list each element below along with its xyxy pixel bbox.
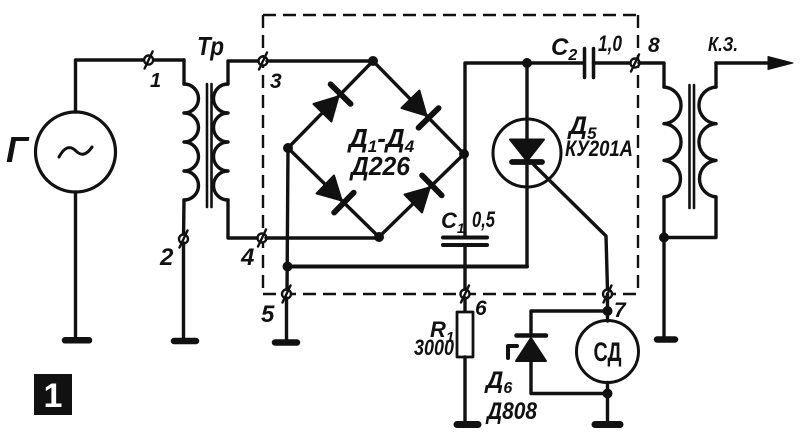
svg-text:6: 6: [475, 297, 487, 320]
node bridge top: [368, 56, 378, 66]
node bridge bottom: [374, 232, 384, 242]
svg-text:СД: СД: [594, 337, 622, 367]
wire bridge right vertex up and to C2: [465, 63, 584, 154]
wire transformer bottom to ground: [662, 238, 665, 337]
svg-text:С2: С2: [551, 34, 577, 64]
wire junction to zener top: [531, 311, 608, 335]
terminal 3: [259, 53, 268, 70]
svg-text:К.З.: К.З.: [708, 34, 738, 56]
terminal 8: [631, 55, 640, 72]
svg-text:0,5: 0,5: [472, 207, 496, 232]
node bridge left: [283, 143, 293, 153]
svg-text:Д808: Д808: [485, 398, 537, 425]
wire bridge left vertex down to terminal 5: [287, 148, 288, 294]
wire terminal 7 to lamp SD: [606, 294, 609, 321]
transformer Tr primary winding: [184, 60, 199, 239]
transformer Tr core: [207, 84, 212, 207]
wire R1 to ground: [463, 357, 466, 421]
transformer Tr secondary winding: [214, 61, 264, 238]
ground (output transformer): [657, 336, 675, 343]
terminal 2: [179, 231, 188, 248]
svg-text:4: 4: [240, 244, 254, 271]
svg-text:КУ201А: КУ201А: [565, 136, 633, 161]
svg-text:С1: С1: [441, 208, 465, 236]
svg-text:Д6: Д6: [484, 367, 512, 397]
wire cathode bus (left vertex to thyristor cathode): [288, 265, 528, 269]
node junction below lamp: [603, 389, 613, 399]
svg-text:3000: 3000: [414, 335, 455, 360]
output transformer primary winding: [664, 87, 681, 238]
terminal 6: [461, 286, 470, 303]
diode D2 (top-right arm): [402, 91, 439, 128]
resistor R1: [457, 298, 473, 357]
wire C1 bottom to terminal 6: [463, 245, 466, 298]
wire terminal 3 to bridge top: [267, 59, 373, 62]
capacitor C2: [585, 49, 594, 78]
wire generator top to terminal 1 to transformer: [76, 60, 185, 112]
wire terminal 5 to ground: [285, 298, 288, 339]
figure number 1: [34, 374, 72, 415]
ground (generator): [65, 337, 89, 344]
svg-text:1,0: 1,0: [598, 31, 623, 56]
lamp SD: [577, 321, 639, 383]
wire bridge right down to C1: [463, 154, 466, 237]
svg-text:1: 1: [150, 70, 161, 92]
wire output arrow: [716, 57, 793, 70]
node junction below terminal 7: [603, 306, 613, 316]
dashed enclosure box: [263, 15, 638, 294]
svg-text:Г: Г: [6, 129, 30, 170]
svg-text:7: 7: [614, 299, 627, 322]
wire C2 to terminal 8: [594, 61, 631, 64]
thyristor D5: [493, 63, 608, 290]
wire terminal 2 to ground: [182, 243, 185, 338]
node bridge right: [459, 149, 469, 159]
diode D1 (left-top arm): [314, 84, 351, 121]
diode bridge D1-D4 frame: [288, 61, 464, 237]
output transformer core: [690, 85, 695, 208]
node junction transformer bottom: [659, 233, 669, 243]
svg-text:2: 2: [159, 244, 174, 271]
ground (lamp): [595, 421, 620, 428]
terminal 4: [258, 230, 267, 247]
svg-text:Тр: Тр: [197, 31, 224, 61]
zener diode D6: [508, 336, 608, 394]
node junction C2 top wire: [522, 58, 532, 68]
svg-text:Д226: Д226: [349, 151, 410, 181]
diode D3 (left-bottom arm): [317, 176, 354, 213]
capacitor C1: [443, 238, 487, 246]
generator G circle: [36, 112, 116, 192]
wire lamp bottom to ground: [606, 383, 609, 422]
svg-text:3: 3: [270, 70, 282, 93]
ground (terminal 5): [275, 339, 297, 346]
svg-text:8: 8: [648, 34, 660, 57]
node junction left bus: [283, 262, 293, 272]
diode D4 (bottom-right arm): [405, 175, 442, 212]
svg-text:5: 5: [261, 301, 275, 328]
ground (R1): [457, 421, 478, 428]
terminal 7: [603, 286, 612, 303]
wire terminal 8 to output transformer: [639, 63, 664, 87]
output transformer secondary winding: [664, 63, 716, 238]
svg-text:1: 1: [44, 377, 63, 415]
terminal 5: [282, 286, 291, 303]
terminal 1: [144, 52, 153, 69]
wire generator bottom to ground: [74, 192, 77, 338]
wire terminal 4 to bridge bottom: [266, 236, 379, 239]
ground (terminal 2): [174, 338, 196, 345]
